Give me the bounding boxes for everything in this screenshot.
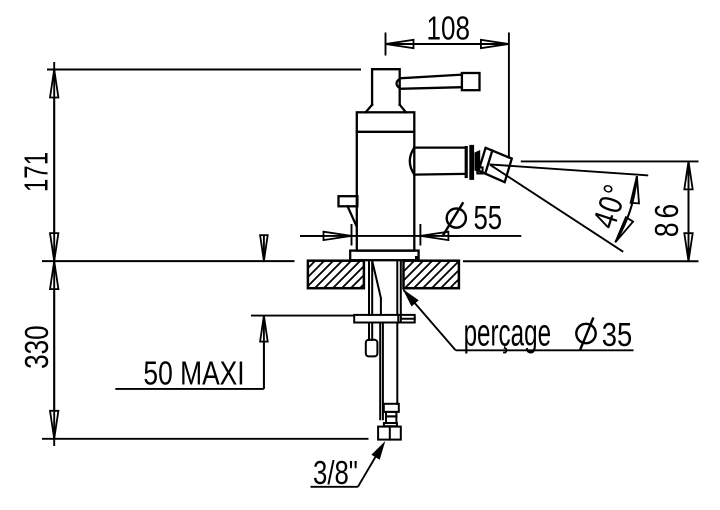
86 top reference line bbox=[521, 160, 699, 162]
330 dimension bottom reference line bbox=[42, 438, 369, 440]
shaft lines over arrowheads bbox=[54, 44, 688, 439]
leader arrowhead 3/8 (filled) bbox=[371, 441, 385, 460]
spout bbox=[410, 148, 465, 175]
svg-text:50 MAXI: 50 MAXI bbox=[143, 356, 244, 392]
svg-text:35: 35 bbox=[602, 318, 632, 354]
svg-text:330: 330 bbox=[19, 325, 56, 368]
3/8 underline bbox=[311, 486, 358, 488]
arrowhead diameter55 left bbox=[324, 232, 352, 240]
3/8 connection nut bbox=[378, 427, 401, 440]
40 degree arc bbox=[615, 176, 637, 242]
svg-text:55: 55 bbox=[473, 200, 502, 237]
side tab on body bbox=[339, 196, 358, 206]
svg-text:86: 86 bbox=[649, 200, 685, 237]
deck slab left (hatched) bbox=[308, 261, 364, 289]
arrowhead diameter55 right bbox=[420, 232, 448, 240]
faucet cartridge cap bbox=[372, 69, 400, 105]
diameter symbol for 55 bbox=[443, 202, 466, 235]
wedge shadow between ring and aerator bbox=[475, 150, 481, 173]
shank tube walls in hole bbox=[369, 262, 401, 315]
handle lever bbox=[397, 75, 462, 89]
threaded rod bbox=[369, 323, 372, 341]
percage leader line bbox=[404, 290, 456, 350]
arrowhead arc bottom bbox=[615, 217, 633, 242]
50 MAXI leader vertical bbox=[263, 316, 265, 389]
arrowhead 86 bottom bbox=[684, 233, 692, 261]
percage underline bbox=[456, 349, 634, 351]
hose ferrule 3 bbox=[386, 416, 396, 423]
counter line right bbox=[463, 260, 699, 262]
108 dimension line bbox=[386, 43, 509, 45]
faucet body bbox=[357, 112, 415, 250]
50 MAXI washer level line bbox=[251, 315, 354, 317]
arrowhead 86 top bbox=[684, 161, 692, 189]
arrowhead 171 bottom bbox=[50, 233, 58, 261]
diameter symbol for 35 bbox=[576, 318, 595, 351]
counter line left bbox=[42, 260, 295, 262]
base flange bbox=[350, 251, 418, 261]
108 extension line right bbox=[508, 33, 510, 159]
hose ferrule 2 bbox=[386, 412, 396, 417]
jet ray upper bbox=[490, 164, 649, 175]
aerator collar line bbox=[485, 151, 492, 174]
fitting neck bbox=[384, 423, 397, 426]
hose ferrule 1 bbox=[384, 404, 399, 412]
arrowhead 330 top bbox=[50, 261, 58, 289]
body joint line bbox=[357, 131, 415, 133]
supply hose bbox=[380, 323, 397, 420]
arrowhead 50maxi up bbox=[260, 316, 268, 342]
jet ray lower 40 degrees bbox=[490, 165, 623, 252]
flange corner mark bbox=[415, 256, 419, 260]
arrowhead 108 left bbox=[386, 40, 414, 48]
diameter 55 dimension line bbox=[300, 235, 521, 237]
cap-to-body transition bbox=[366, 105, 406, 113]
spout end ring 2 bbox=[469, 147, 474, 177]
tab strut bbox=[348, 206, 357, 225]
mounting washer and nut bar bbox=[354, 315, 415, 323]
deck slab right (hatched) bbox=[404, 261, 459, 289]
aerator clip notch bbox=[477, 167, 482, 173]
diameter 55 tick left bbox=[351, 224, 353, 246]
rod fitting bbox=[366, 340, 378, 357]
arrowhead arc top bbox=[631, 176, 639, 203]
arrowhead 330 bottom bbox=[50, 411, 58, 439]
svg-text:108: 108 bbox=[427, 10, 470, 47]
108 extension line left bbox=[385, 33, 387, 56]
diameter 55 tick right bbox=[419, 224, 421, 246]
left dimension line 171-330 bbox=[53, 62, 55, 446]
arrowhead 171 top bbox=[50, 70, 58, 98]
svg-text:3/8": 3/8" bbox=[313, 455, 358, 492]
50 MAXI underline bbox=[115, 388, 264, 390]
svg-text:perçage: perçage bbox=[464, 311, 551, 354]
svg-text:171: 171 bbox=[19, 152, 56, 192]
arrowhead 50maxi down bbox=[260, 235, 268, 261]
leader arrowhead percage (filled) bbox=[403, 289, 419, 307]
3/8 leader line bbox=[358, 448, 381, 487]
aerator (tilted) bbox=[479, 148, 512, 182]
handle knob bbox=[462, 73, 480, 90]
86 dimension line bbox=[688, 161, 690, 261]
spout end ring 1 bbox=[465, 148, 468, 177]
hose crossing in hole bbox=[373, 263, 381, 315]
arrowhead 108 right bbox=[481, 40, 509, 48]
171 dimension top reference line bbox=[47, 69, 361, 71]
